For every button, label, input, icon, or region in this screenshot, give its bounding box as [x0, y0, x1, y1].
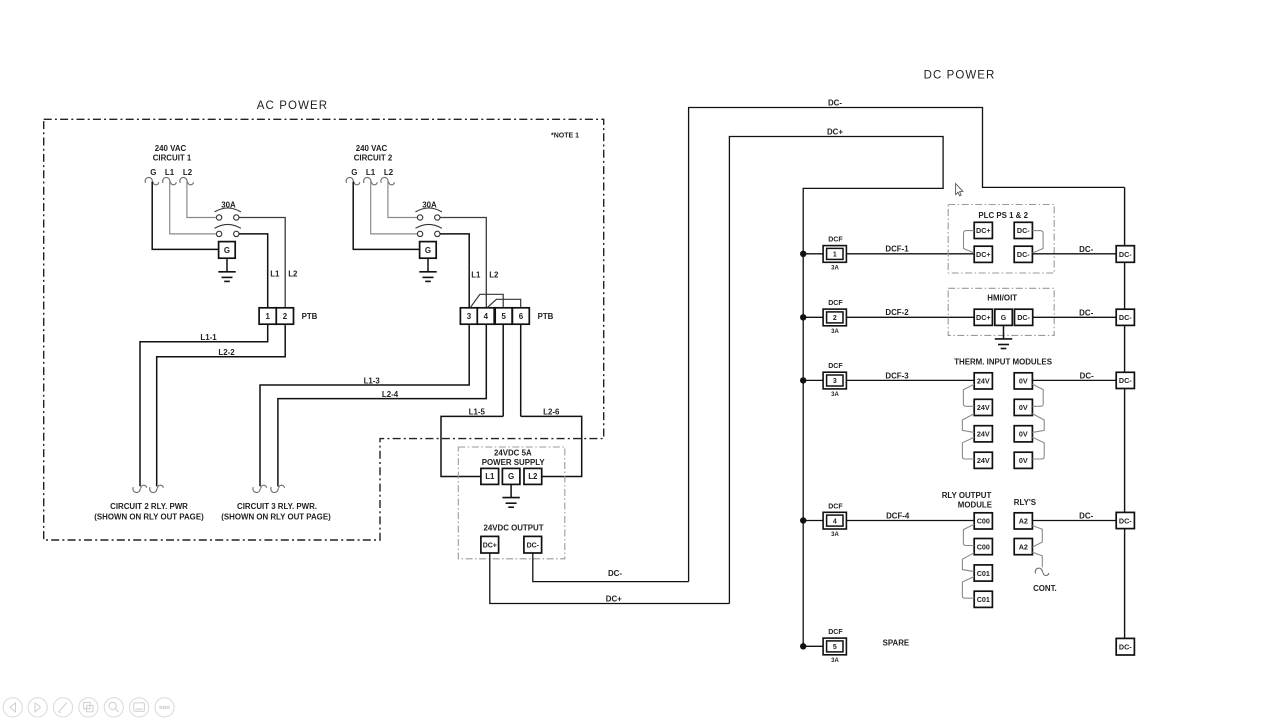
therm module terminal 0V #4 — [1014, 452, 1032, 468]
therm 0V daisy wire 1-2 — [1032, 384, 1043, 406]
svg-text:L1: L1 — [471, 270, 481, 279]
toolbar button keyboard — [130, 698, 149, 717]
svg-text:CIRCUIT 3 RLY. PWR.: CIRCUIT 3 RLY. PWR. — [237, 502, 317, 511]
PLC PS 1 & 2 enclosure — [948, 205, 1054, 274]
toolbar button copy pages — [79, 698, 98, 717]
wire power feed bus to supply L1 — [441, 416, 503, 476]
svg-text:L2: L2 — [384, 168, 394, 177]
rly terminal A2 #1 — [1014, 513, 1032, 529]
svg-text:0V: 0V — [1019, 403, 1028, 412]
svg-text:DC-: DC- — [1079, 245, 1093, 254]
power supply terminal L2 — [524, 468, 542, 484]
terminal L1 circuit 1 — [163, 177, 177, 184]
AC POWER dashed boundary — [44, 119, 604, 540]
breaker pole 1 circuit 1 — [215, 208, 241, 220]
svg-text:DCF-1: DCF-1 — [885, 245, 909, 254]
svg-text:3A: 3A — [831, 329, 839, 335]
end terminal circuit3 rly pwr wire 1 — [253, 485, 267, 492]
svg-text:5: 5 — [502, 312, 507, 321]
svg-text:DC-: DC- — [1017, 250, 1030, 259]
svg-text:4: 4 — [833, 518, 837, 525]
svg-text:C01: C01 — [977, 569, 990, 578]
end terminal circuit3 rly pwr wire 2 — [271, 485, 285, 492]
svg-text:DCF: DCF — [828, 629, 843, 636]
svg-text:DC-: DC- — [608, 569, 622, 578]
svg-text:24VDC 5A: 24VDC 5A — [494, 449, 532, 458]
PLC PS right parallel loop wire — [1032, 231, 1043, 253]
svg-text:DC-: DC- — [828, 99, 842, 108]
svg-text:DC-: DC- — [1079, 512, 1093, 521]
therm 24V daisy wire 3-4 — [962, 437, 974, 459]
wire DC- run to right — [533, 553, 689, 582]
therm module terminal 0V #2 — [1014, 399, 1032, 415]
svg-text:POWER SUPPLY: POWER SUPPLY — [482, 458, 546, 467]
terminal L1 circuit 2 — [364, 177, 378, 184]
svg-text:SPARE: SPARE — [883, 639, 910, 648]
breaker pole 2 circuit 1 — [215, 224, 241, 236]
svg-text:DC+: DC+ — [976, 313, 991, 322]
therm module terminal 0V #1 — [1014, 373, 1032, 389]
HMI ground symbol — [995, 339, 1012, 349]
svg-text:DC-: DC- — [1119, 376, 1132, 385]
therm 24V daisy wire 2-3 — [962, 414, 974, 433]
ground symbol circuit 1 — [218, 272, 235, 282]
end terminal circuit2 rly pwr wire 2 — [150, 485, 164, 492]
PLC PS terminal DC- upper — [1014, 222, 1032, 238]
svg-text:0V: 0V — [1019, 430, 1028, 439]
svg-text:DC+: DC+ — [976, 250, 991, 259]
svg-text:G: G — [1001, 315, 1007, 322]
fuse DCF-5 spare — [803, 629, 846, 664]
rly module terminal C00 #2 — [974, 539, 992, 555]
svg-text:2: 2 — [833, 315, 837, 322]
therm 0V daisy wire 2-3 — [1032, 414, 1044, 433]
svg-text:24V: 24V — [977, 403, 990, 412]
svg-text:CIRCUIT 2: CIRCUIT 2 — [354, 153, 393, 162]
svg-text:DC-: DC- — [1119, 250, 1132, 259]
svg-text:THERM. INPUT MODULES: THERM. INPUT MODULES — [954, 357, 1052, 366]
svg-text:PLC PS 1 & 2: PLC PS 1 & 2 — [978, 211, 1028, 220]
svg-text:C01: C01 — [977, 595, 990, 604]
wire L1-5 stub from PTB5 — [502, 324, 504, 416]
svg-text:DCF: DCF — [828, 300, 843, 307]
svg-text:G: G — [508, 472, 514, 481]
svg-text:6: 6 — [519, 312, 524, 321]
wire G drop circuit 2 — [353, 182, 419, 250]
svg-text:*NOTE 1: *NOTE 1 — [551, 133, 579, 140]
svg-text:DC+: DC+ — [827, 128, 843, 137]
wire DC+ run to right — [490, 553, 730, 604]
svg-text:1: 1 — [266, 312, 271, 321]
svg-text:RLY OUTPUT: RLY OUTPUT — [942, 491, 992, 500]
svg-text:DC-: DC- — [1119, 313, 1132, 322]
rly A2 continuation wire — [1032, 552, 1042, 567]
wire L1-3 — [260, 324, 469, 486]
breaker pole 2 circuit 2 — [416, 224, 442, 236]
svg-text:RLY'S: RLY'S — [1014, 498, 1036, 507]
output terminal DC+ — [481, 536, 499, 553]
svg-text:G: G — [351, 168, 357, 177]
svg-text:A2: A2 — [1019, 517, 1028, 526]
end terminal circuit2 rly pwr wire 1 — [133, 485, 147, 492]
jumper PTB3 to PTB5 — [471, 294, 504, 307]
svg-text:G: G — [224, 246, 230, 255]
svg-text:A2: A2 — [1019, 542, 1028, 551]
therm module terminal 24V #2 — [974, 399, 992, 415]
svg-text:L2-2: L2-2 — [218, 348, 235, 357]
svg-text:AC POWER: AC POWER — [257, 100, 328, 112]
wire DCF-2 to HMI — [846, 316, 974, 318]
wire L2-4 — [278, 324, 486, 486]
svg-text:DCF-3: DCF-3 — [885, 371, 909, 380]
svg-text:PTB: PTB — [302, 312, 318, 321]
DC- bus terminal bottom — [1116, 638, 1134, 655]
PLC PS terminal DC+ upper — [974, 222, 992, 238]
svg-text:3A: 3A — [831, 532, 839, 538]
svg-text:240 VAC: 240 VAC — [155, 144, 187, 153]
svg-text:5: 5 — [833, 644, 837, 651]
svg-text:1: 1 — [833, 252, 837, 259]
DC- bus terminal row2 — [1116, 309, 1134, 325]
continuation squiggle — [1035, 568, 1049, 575]
svg-text:DC+: DC+ — [976, 226, 991, 235]
svg-text:G: G — [425, 246, 431, 255]
svg-text:3A: 3A — [831, 266, 839, 272]
svg-text:L1: L1 — [165, 168, 175, 177]
toolbar button pen — [53, 698, 72, 717]
svg-text:PTB: PTB — [538, 312, 554, 321]
wire DCF-4 to rly output module — [846, 520, 974, 522]
wire L1-1 — [140, 324, 268, 486]
therm module terminal 24V #1 — [974, 373, 992, 389]
jumper PTB4 to PTB6 — [488, 299, 521, 307]
svg-text:DCF: DCF — [828, 363, 843, 370]
terminal G circuit 1 — [145, 177, 159, 184]
DC- bus terminal row4 — [1116, 512, 1134, 528]
svg-text:G: G — [150, 168, 156, 177]
svg-text:DCF-2: DCF-2 — [885, 308, 909, 317]
svg-text:MODULE: MODULE — [958, 501, 992, 510]
wire pole2 to L1 vertical circuit 1 — [239, 234, 268, 308]
svg-text:24V: 24V — [977, 456, 990, 465]
svg-text:L2: L2 — [528, 472, 538, 481]
rly A2 chain wire 1-2 — [1032, 526, 1042, 548]
svg-text:L1: L1 — [485, 472, 495, 481]
wire L2 to breaker circuit 1 — [187, 182, 217, 218]
wire L1 to breaker circuit 2 — [371, 182, 418, 234]
svg-text:L1-5: L1-5 — [469, 407, 486, 416]
therm module terminal 0V #3 — [1014, 426, 1032, 442]
rly module terminal C01 #3 — [974, 565, 992, 581]
wire DCF-3 to therm modules — [846, 379, 974, 381]
svg-text:DC-: DC- — [1080, 372, 1094, 381]
svg-text:DCF: DCF — [828, 503, 843, 510]
svg-text:3: 3 — [833, 378, 837, 385]
power supply enclosure dashed box — [458, 447, 565, 559]
wire power feed bus to supply L2 — [521, 416, 582, 476]
junction node fuse 4 — [800, 517, 806, 523]
DC- bus terminal row3 — [1116, 372, 1134, 388]
rly daisy wire 3-4 — [962, 577, 974, 599]
wire HMI to DC- bus — [1033, 316, 1117, 318]
svg-text:DC-: DC- — [1119, 516, 1132, 525]
svg-text:DC POWER: DC POWER — [924, 70, 996, 82]
mouse cursor — [956, 184, 963, 196]
svg-text:3A: 3A — [831, 392, 839, 398]
svg-text:DC-: DC- — [527, 543, 540, 550]
rly module terminal C01 #4 — [974, 591, 992, 607]
ground symbol circuit 2 — [419, 272, 436, 282]
power supply ground symbol — [502, 498, 519, 508]
HMI terminal DC- — [1015, 309, 1033, 325]
breaker pole 1 circuit 2 — [416, 208, 442, 220]
svg-text:L2: L2 — [183, 168, 193, 177]
svg-text:24VDC OUTPUT: 24VDC OUTPUT — [483, 524, 543, 533]
PTB terminal 6 — [512, 308, 529, 324]
ground stem circuit 2 — [427, 258, 429, 271]
svg-text:0V: 0V — [1019, 377, 1028, 386]
junction node fuse 2 — [800, 314, 806, 320]
power supply terminal L1 — [481, 468, 499, 484]
wire L2 to breaker circuit 2 — [388, 182, 418, 218]
PLC PS left parallel loop wire — [964, 231, 975, 253]
svg-text:L1-3: L1-3 — [364, 376, 381, 385]
toolbar button search — [104, 698, 123, 717]
svg-text:24V: 24V — [977, 430, 990, 439]
DC- bus vertical line — [1124, 187, 1126, 638]
svg-text:3: 3 — [467, 312, 472, 321]
terminal G circuit 2 — [346, 177, 360, 184]
PLC PS terminal DC- lower — [1014, 246, 1032, 262]
junction node fuse 3 — [800, 377, 806, 383]
svg-text:24V: 24V — [977, 377, 990, 386]
svg-text:L1-1: L1-1 — [200, 333, 217, 342]
svg-text:0V: 0V — [1019, 456, 1028, 465]
svg-text:DC+: DC+ — [606, 594, 622, 603]
svg-text:3A: 3A — [831, 658, 839, 664]
svg-text:DCF: DCF — [828, 237, 843, 244]
junction node fuse 1 — [800, 251, 806, 257]
svg-text:L1: L1 — [366, 168, 376, 177]
output terminal DC- — [524, 536, 542, 553]
svg-text:DC+: DC+ — [483, 543, 497, 550]
PTB terminal 2 — [276, 308, 293, 324]
svg-text:L1: L1 — [270, 269, 280, 278]
wire DC+ riser and top run — [729, 137, 943, 647]
junction node fuse 5 — [800, 643, 806, 649]
svg-text:DC-: DC- — [1119, 643, 1132, 652]
wire PLC PS to DC- bus — [1032, 253, 1116, 255]
svg-text:CIRCUIT 2 RLY. PWR: CIRCUIT 2 RLY. PWR — [110, 502, 188, 511]
HMI ground stem — [1003, 325, 1005, 338]
wire L2-6 stub from PTB6 — [520, 324, 522, 416]
rly terminal A2 #2 — [1014, 539, 1032, 555]
svg-text:(SHOWN ON RLY OUT PAGE): (SHOWN ON RLY OUT PAGE) — [94, 512, 204, 521]
fuse DCF-2 — [803, 300, 846, 335]
wire therm to DC- bus — [1032, 379, 1116, 381]
HMI/OIT enclosure — [948, 288, 1054, 335]
PTB terminal 3 — [460, 308, 477, 324]
PLC PS terminal DC+ lower — [974, 246, 992, 262]
wire rly to DC- bus — [1032, 520, 1116, 522]
svg-text:L2-6: L2-6 — [543, 407, 560, 416]
PTB terminal 5 — [495, 308, 512, 324]
svg-text:CONT.: CONT. — [1033, 584, 1057, 593]
svg-text:C00: C00 — [977, 542, 990, 551]
PTB terminal 4 — [477, 308, 494, 324]
svg-text:DC-: DC- — [1017, 226, 1030, 235]
rly module terminal C00 #1 — [974, 513, 992, 529]
wire pole2 to PTB3 circuit 2 — [440, 234, 469, 308]
rly daisy wire 1-2 — [963, 524, 974, 545]
wire L1 to breaker circuit 1 — [170, 182, 217, 234]
svg-text:C00: C00 — [977, 517, 990, 526]
wire pole1 to L2 vertical circuit 1 — [239, 218, 285, 308]
toolbar button next — [28, 698, 47, 717]
svg-text:HMI/OIT: HMI/OIT — [987, 294, 1017, 303]
svg-text:DCF-4: DCF-4 — [886, 511, 910, 520]
toolbar button previous — [3, 698, 22, 717]
svg-text:L2: L2 — [288, 269, 298, 278]
therm module terminal 24V #3 — [974, 426, 992, 442]
svg-text:4: 4 — [484, 312, 489, 321]
svg-text:DC-: DC- — [1017, 313, 1030, 322]
wire G drop circuit 1 — [152, 182, 218, 250]
therm module terminal 24V #4 — [974, 452, 992, 468]
svg-text:L2: L2 — [489, 270, 499, 279]
wire pole1 to PTB4 circuit 2 — [440, 218, 486, 308]
fuse DCF-4 — [803, 503, 846, 538]
DC- bus terminal row1 — [1116, 246, 1134, 263]
svg-text:240 VAC: 240 VAC — [356, 144, 388, 153]
fuse DCF-1 — [803, 237, 846, 272]
power supply ground stem — [510, 484, 512, 497]
HMI terminal DC+ — [974, 309, 992, 325]
svg-text:DC-: DC- — [1079, 309, 1093, 318]
svg-text:2: 2 — [283, 312, 288, 321]
svg-text:(SHOWN ON RLY OUT PAGE): (SHOWN ON RLY OUT PAGE) — [221, 512, 331, 521]
ground stem circuit 1 — [226, 258, 228, 271]
therm 0V daisy wire 3-4 — [1032, 437, 1044, 459]
HMI terminal G — [995, 309, 1013, 325]
wire DC- riser and top run — [689, 108, 1125, 582]
wire DCF-1 to PLC PS — [846, 253, 974, 255]
ground box G circuit 1 — [219, 242, 236, 259]
terminal L2 circuit 2 — [381, 177, 395, 184]
fuse DCF-3 — [803, 363, 846, 398]
ground box G circuit 2 — [420, 242, 437, 259]
svg-text:L2-4: L2-4 — [382, 390, 399, 399]
rly daisy wire 2-3 — [962, 553, 974, 572]
svg-text:CIRCUIT 1: CIRCUIT 1 — [153, 153, 192, 162]
PTB terminal 1 — [259, 308, 276, 324]
terminal L2 circuit 1 — [180, 177, 194, 184]
wire L2-2 — [157, 324, 286, 486]
therm 24V daisy wire 1-2 — [963, 384, 974, 406]
toolbar button more — [155, 698, 174, 717]
power supply terminal G — [502, 468, 520, 484]
